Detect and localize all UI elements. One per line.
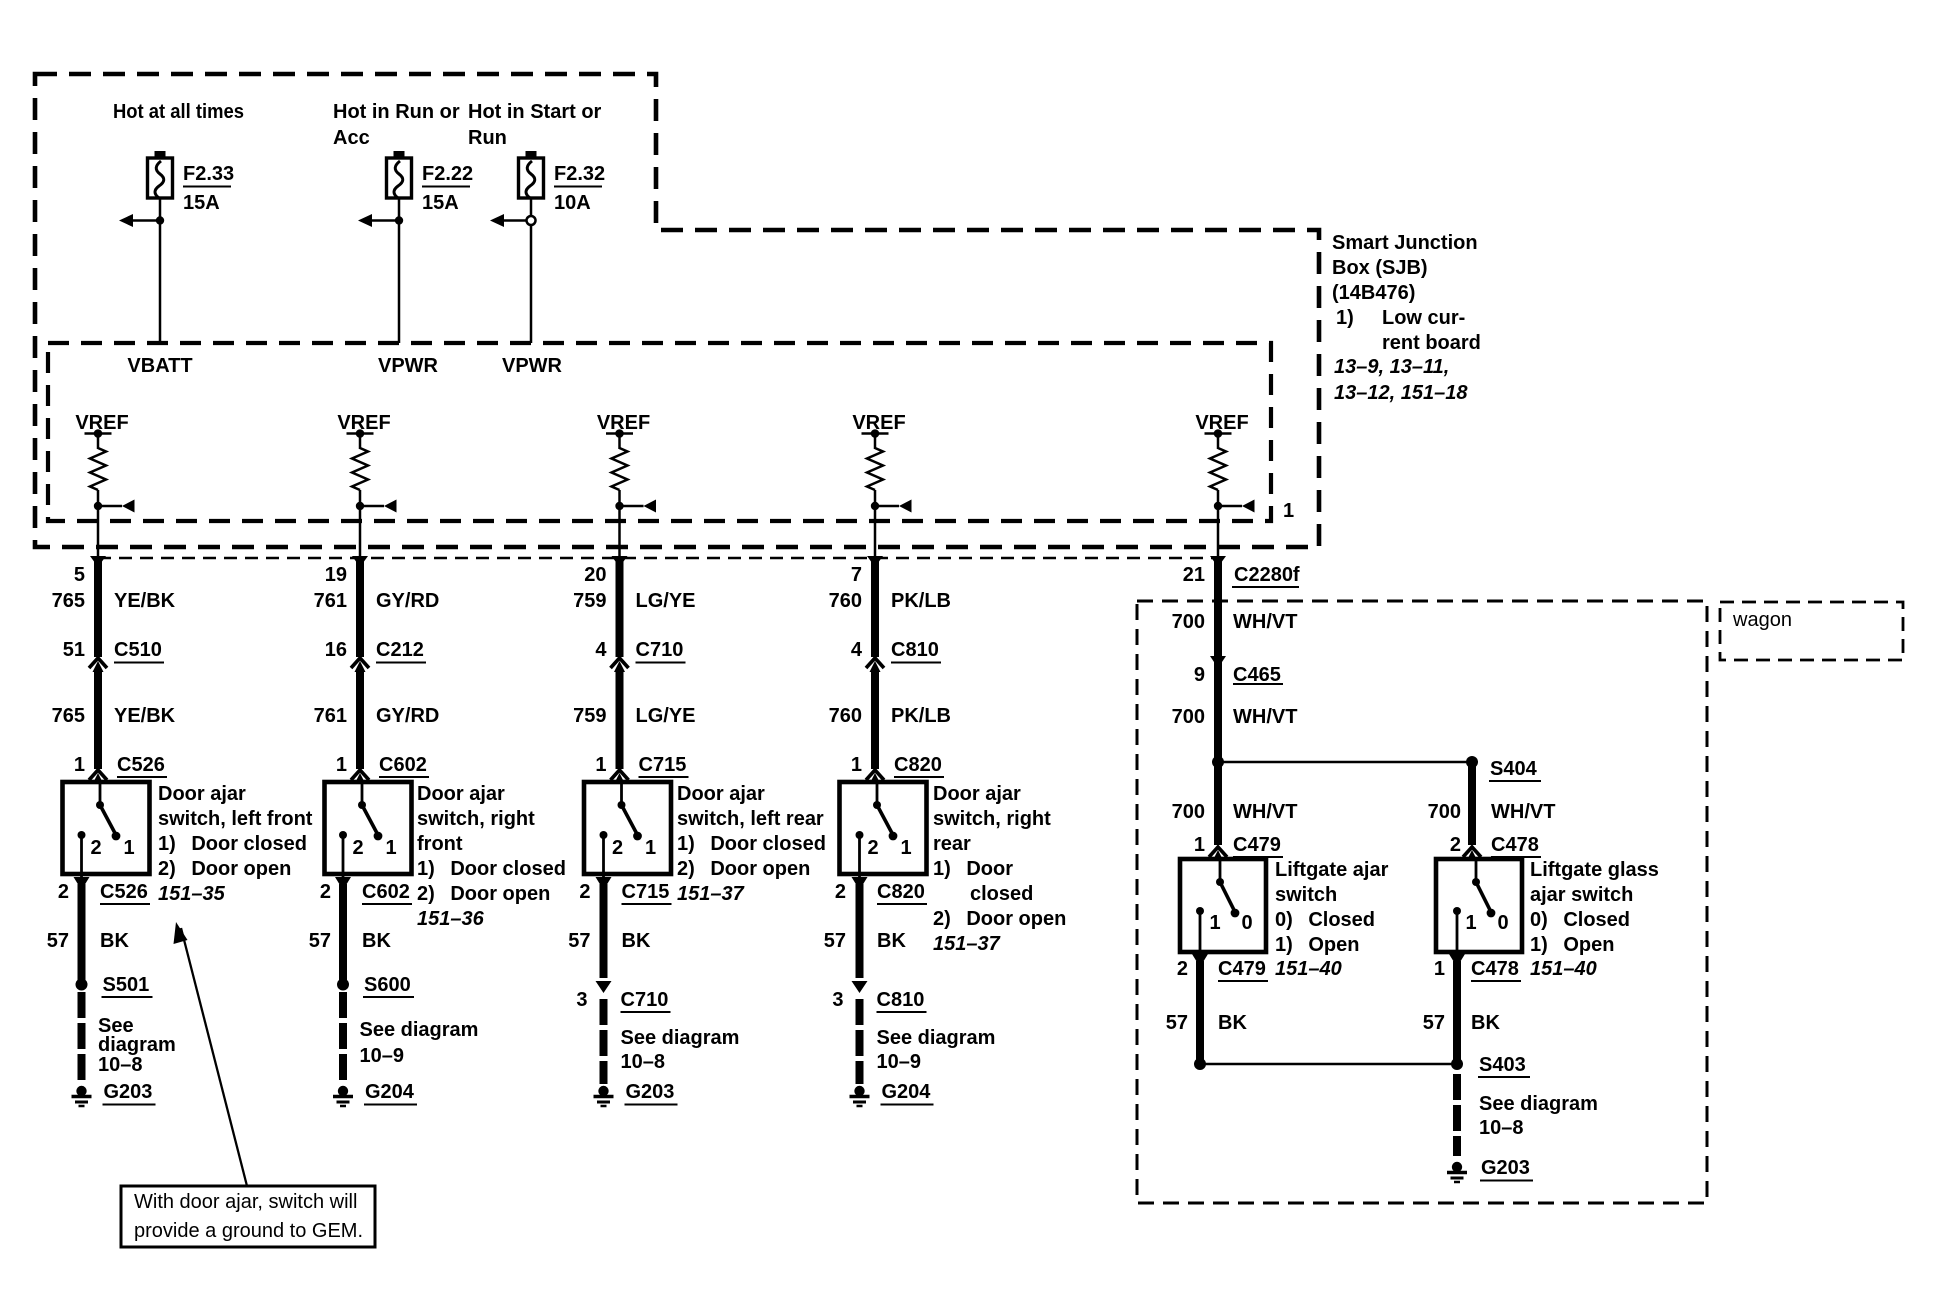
connector arrowhead on wire 1 <box>90 556 106 567</box>
svg-text:4: 4 <box>595 639 607 661</box>
door ajar switch left front internals <box>78 782 135 877</box>
svg-text:3: 3 <box>832 989 843 1011</box>
svg-text:759: 759 <box>573 705 606 727</box>
wire 760 PK/LB (lower segment, col 4) <box>871 671 879 769</box>
feed arrow at F2.22 <box>358 214 399 227</box>
svg-text:51: 51 <box>63 639 85 661</box>
connector label C810 (pin 3) <box>877 989 927 1012</box>
value label F2.33/15A <box>183 163 234 214</box>
svg-text:C820: C820 <box>894 754 942 776</box>
svg-text:7: 7 <box>851 564 862 586</box>
svg-text:13–12, 151–18: 13–12, 151–18 <box>1334 382 1468 404</box>
svg-text:BK: BK <box>100 930 129 952</box>
connector label C465 <box>1233 664 1283 686</box>
svg-text:VREF: VREF <box>852 412 905 434</box>
wire: VREF 1 to resistor <box>97 434 100 450</box>
connector arrowhead on wire 2 <box>352 556 368 567</box>
resistor (VREF pull-up 3) <box>612 448 628 490</box>
svg-text:front: front <box>417 833 463 855</box>
wire 57 BK down <box>856 884 864 978</box>
svg-text:765: 765 <box>52 705 85 727</box>
svg-text:rent board: rent board <box>1382 332 1481 354</box>
svg-text:1) Door closed: 1) Door closed <box>677 833 826 855</box>
connector arrowhead C602 pin 2 <box>335 877 351 890</box>
svg-text:760: 760 <box>829 705 862 727</box>
svg-text:Liftgate ajar: Liftgate ajar <box>1275 859 1389 881</box>
connector C602 pin 1 <box>351 770 369 784</box>
svg-text:1: 1 <box>851 754 862 776</box>
wire: F2.22 output down to SJB board <box>398 198 401 343</box>
door ajar switch left rear (box) <box>584 782 671 874</box>
svg-text:Hot in Start or: Hot in Start or <box>468 101 602 123</box>
liftgate ajar switch internals <box>1196 859 1253 954</box>
svg-text:761: 761 <box>314 705 347 727</box>
svg-text:G204: G204 <box>365 1081 415 1103</box>
svg-text:1) Door closed: 1) Door closed <box>417 858 566 880</box>
connector arrowhead on wire 3 <box>612 556 628 567</box>
svg-text:S404: S404 <box>1490 758 1538 780</box>
connector arrowhead C810 pin 3 <box>852 981 868 993</box>
junction at F2.33 <box>156 216 164 224</box>
svg-text:Hot in Run or: Hot in Run or <box>333 101 460 123</box>
label: see diagram (liftgate) <box>1479 1093 1598 1139</box>
svg-text:VREF: VREF <box>1195 412 1248 434</box>
svg-text:Liftgate glass: Liftgate glass <box>1530 859 1659 881</box>
svg-text:Low cur-: Low cur- <box>1382 307 1465 329</box>
svg-text:0: 0 <box>1497 912 1508 934</box>
svg-text:G203: G203 <box>626 1081 675 1103</box>
SJB inner dashed box (low current board) <box>48 343 1271 521</box>
svg-text:switch, left rear: switch, left rear <box>677 808 824 830</box>
wire: VREF 5 to resistor <box>1217 434 1220 450</box>
svg-text:BK: BK <box>622 930 651 952</box>
svg-text:C479: C479 <box>1218 958 1266 980</box>
svg-text:F2.22: F2.22 <box>422 163 473 185</box>
value label F2.32/10A <box>554 163 605 214</box>
svg-text:S403: S403 <box>1479 1054 1526 1076</box>
svg-text:1: 1 <box>900 837 911 859</box>
svg-text:rear: rear <box>933 833 971 855</box>
label: see diagram <box>98 1015 176 1076</box>
wire 759 LG/YE (upper segment, col 3) <box>616 560 624 657</box>
svg-text:closed: closed <box>970 883 1033 905</box>
splice label S501 <box>102 974 153 997</box>
svg-text:provide a ground to GEM.: provide a ground to GEM. <box>134 1220 363 1242</box>
svg-text:(14B476): (14B476) <box>1332 282 1415 304</box>
svg-text:5: 5 <box>74 564 85 586</box>
label: door ajar switch right front <box>417 783 566 930</box>
svg-text:switch: switch <box>1275 884 1337 906</box>
wire: resistor 2 down to pin <box>359 490 362 558</box>
wire: F2.33 output down to SJB board <box>159 198 162 343</box>
liftgate glass ajar switch (box) <box>1436 859 1522 952</box>
svg-text:151–40: 151–40 <box>1530 958 1597 980</box>
connector arrowhead C820 pin 2 <box>852 877 868 890</box>
wire 57 BK (liftgate switch to S403) <box>1196 961 1204 1064</box>
svg-text:BK: BK <box>877 930 906 952</box>
svg-text:151–40: 151–40 <box>1275 958 1342 980</box>
wire 700 WH/VT (liftgate feed) <box>1214 560 1222 845</box>
svg-text:1: 1 <box>1465 912 1476 934</box>
svg-text:G203: G203 <box>104 1081 153 1103</box>
svg-text:0: 0 <box>1241 912 1252 934</box>
connector C715 pin 1 <box>611 770 629 784</box>
svg-text:57: 57 <box>1166 1012 1188 1034</box>
svg-text:1): 1) <box>1336 307 1354 329</box>
junction + board arrow (column 4) <box>871 500 912 513</box>
svg-text:C465: C465 <box>1233 664 1281 686</box>
svg-text:2) Door open: 2) Door open <box>677 858 810 880</box>
connector label C479 <box>1233 834 1283 857</box>
ground G203 <box>72 1086 92 1106</box>
connector label C602 (pin 2) <box>362 881 412 904</box>
wire (continuation, dashed) <box>339 992 347 1082</box>
svg-text:1: 1 <box>1434 958 1445 980</box>
svg-text:10–8: 10–8 <box>98 1054 143 1076</box>
svg-text:1) Door: 1) Door <box>933 858 1013 880</box>
svg-text:21: 21 <box>1183 564 1205 586</box>
svg-text:700: 700 <box>1172 611 1205 633</box>
svg-text:57: 57 <box>824 930 846 952</box>
wire: resistor 1 down to pin <box>97 490 100 558</box>
node VREF (column 1) <box>75 412 128 438</box>
ground label G204 <box>881 1081 934 1105</box>
svg-text:F2.33: F2.33 <box>183 163 234 185</box>
fuse F2.22 15A <box>387 151 412 198</box>
resistor (VREF pull-up 5) <box>1210 448 1226 490</box>
svg-text:759: 759 <box>573 590 606 612</box>
svg-text:10A: 10A <box>554 192 591 214</box>
svg-text:PK/LB: PK/LB <box>891 590 951 612</box>
connector label C820 (pin 2) <box>877 881 927 904</box>
svg-text:1: 1 <box>1209 912 1220 934</box>
splice label S600 <box>363 974 414 997</box>
wire 57 BK (glass switch to S403) <box>1453 961 1461 1064</box>
connector arrowhead C715 pin 2 <box>596 877 612 890</box>
svg-text:1: 1 <box>336 754 347 776</box>
splice S404 (right node) <box>1466 756 1478 768</box>
svg-text:GY/RD: GY/RD <box>376 590 439 612</box>
liftgate glass ajar switch internals <box>1453 859 1509 954</box>
splice label S403 <box>1478 1054 1530 1077</box>
door ajar switch right rear (box) <box>840 782 927 874</box>
svg-text:PK/LB: PK/LB <box>891 705 951 727</box>
feed arrow at F2.33 <box>119 214 160 227</box>
svg-text:See diagram: See diagram <box>621 1027 740 1049</box>
svg-text:WH/VT: WH/VT <box>1491 801 1555 823</box>
svg-text:1) Open: 1) Open <box>1275 934 1359 956</box>
svg-text:2: 2 <box>579 881 590 903</box>
svg-text:LG/YE: LG/YE <box>636 705 696 727</box>
svg-text:16: 16 <box>325 639 347 661</box>
splice S403 junction (left) <box>1194 1058 1206 1070</box>
wire (continuation, dashed) <box>78 992 86 1082</box>
note box: ground to GEM <box>121 1186 375 1247</box>
ground G204 <box>333 1086 353 1106</box>
svg-text:C479: C479 <box>1233 834 1281 856</box>
svg-text:760: 760 <box>829 590 862 612</box>
in-line connector C212 <box>351 658 369 672</box>
svg-text:Door ajar: Door ajar <box>158 783 246 805</box>
svg-text:switch, right: switch, right <box>417 808 535 830</box>
connector label C810 <box>891 639 941 663</box>
svg-text:C710: C710 <box>636 639 684 661</box>
svg-text:See diagram: See diagram <box>360 1019 479 1041</box>
svg-text:13–9, 13–11,: 13–9, 13–11, <box>1334 356 1449 378</box>
connector label C710 <box>636 639 686 663</box>
svg-text:C715: C715 <box>622 881 670 903</box>
liftgate ajar switch (box) <box>1180 859 1266 952</box>
svg-text:VPWR: VPWR <box>378 355 439 377</box>
junction at F2.22 <box>395 216 403 224</box>
connector label C526 (pin 1) <box>117 754 167 777</box>
connector arrowhead on wire 5 <box>1210 556 1226 567</box>
wire: resistor 5 down to pin <box>1217 490 1220 558</box>
svg-text:VBATT: VBATT <box>127 355 192 377</box>
ground label G204 <box>364 1081 417 1105</box>
svg-text:15A: 15A <box>422 192 459 214</box>
svg-text:G203: G203 <box>1481 1157 1530 1179</box>
svg-text:2: 2 <box>1450 834 1461 856</box>
svg-text:C820: C820 <box>877 881 925 903</box>
svg-text:C510: C510 <box>114 639 162 661</box>
connector arrowhead on wire 4 <box>867 556 883 567</box>
wire 759 LG/YE (lower segment, col 3) <box>616 671 624 769</box>
svg-text:switch, left front: switch, left front <box>158 808 313 830</box>
svg-text:1: 1 <box>74 754 85 776</box>
wire (continuation, dashed) <box>856 999 864 1084</box>
svg-text:10–8: 10–8 <box>621 1051 666 1073</box>
svg-text:Hot at all times: Hot at all times <box>113 101 244 123</box>
svg-text:Door ajar: Door ajar <box>417 783 505 805</box>
svg-text:wagon: wagon <box>1732 609 1792 631</box>
ground label G203 (liftgate) <box>1480 1157 1533 1181</box>
svg-text:F2.32: F2.32 <box>554 163 605 185</box>
svg-text:BK: BK <box>362 930 391 952</box>
junction + board arrow (column 3) <box>615 500 656 513</box>
door ajar switch right front (box) <box>325 782 412 874</box>
svg-text:Door ajar: Door ajar <box>933 783 1021 805</box>
svg-text:1) Door closed: 1) Door closed <box>158 833 307 855</box>
wire 57 BK to splice S501 <box>78 884 86 980</box>
svg-text:C710: C710 <box>621 989 669 1011</box>
junction + board arrow (column 2) <box>356 500 397 513</box>
svg-text:1: 1 <box>595 754 606 776</box>
junction + board arrow (column 5) <box>1214 500 1255 513</box>
svg-text:1: 1 <box>123 837 134 859</box>
connector label C710 (pin 3) <box>621 989 671 1012</box>
svg-text:C602: C602 <box>379 754 427 776</box>
note arrow <box>174 922 248 1186</box>
svg-text:With door ajar, switch will: With door ajar, switch will <box>134 1191 357 1213</box>
label: see diagram <box>360 1019 479 1067</box>
svg-text:See diagram: See diagram <box>877 1027 996 1049</box>
svg-text:10–9: 10–9 <box>877 1051 922 1073</box>
connector label C478 (pin 1) <box>1471 958 1521 981</box>
svg-text:20: 20 <box>584 564 606 586</box>
wire to ground (dashed) <box>1453 1074 1461 1156</box>
wire 765 YE/BK (lower segment, col 1) <box>94 671 102 769</box>
svg-text:10–8: 10–8 <box>1479 1117 1524 1139</box>
svg-text:10–9: 10–9 <box>360 1045 405 1067</box>
svg-text:700: 700 <box>1428 801 1461 823</box>
svg-text:151–35: 151–35 <box>158 883 226 905</box>
svg-text:2: 2 <box>352 837 363 859</box>
connector C479 pin 1 <box>1209 847 1227 861</box>
svg-text:2: 2 <box>320 881 331 903</box>
connector label C820 (pin 1) <box>894 754 944 777</box>
svg-text:57: 57 <box>1423 1012 1445 1034</box>
svg-text:57: 57 <box>568 930 590 952</box>
feed arrow at F2.32 <box>490 214 527 227</box>
svg-text:2: 2 <box>867 837 878 859</box>
in-line connector C710 <box>611 658 629 672</box>
node VREF (column 5) <box>1195 412 1248 438</box>
label: door ajar switch left rear <box>677 783 826 905</box>
svg-text:9: 9 <box>1194 664 1205 686</box>
value label F2.22/15A <box>422 163 473 214</box>
in-line connector C810 <box>866 658 884 672</box>
label: liftgate ajar switch <box>1275 859 1389 980</box>
wire (continuation, dashed) <box>600 999 608 1084</box>
ground label G203 <box>625 1081 678 1105</box>
svg-text:19: 19 <box>325 564 347 586</box>
connector C820 pin 1 <box>866 770 884 784</box>
splice S403 <box>1451 1058 1463 1070</box>
svg-text:Box (SJB): Box (SJB) <box>1332 257 1428 279</box>
wire: VREF 3 to resistor <box>618 434 621 450</box>
junction (open) at F2.32 <box>527 216 536 225</box>
svg-text:VREF: VREF <box>75 412 128 434</box>
fuse F2.32 10A <box>519 151 544 198</box>
label: liftgate glass ajar switch <box>1530 859 1659 980</box>
svg-text:2: 2 <box>1177 958 1188 980</box>
label: door ajar switch right rear <box>933 783 1066 955</box>
svg-text:G204: G204 <box>882 1081 932 1103</box>
svg-text:C602: C602 <box>362 881 410 903</box>
svg-text:1: 1 <box>1194 834 1205 856</box>
wire 700 WH/VT (glass switch branch) <box>1468 762 1476 845</box>
wire: F2.32 output down to SJB board <box>530 198 533 343</box>
svg-text:BK: BK <box>1471 1012 1500 1034</box>
svg-text:C810: C810 <box>891 639 939 661</box>
connector label C715 (pin 1) <box>639 754 689 777</box>
svg-text:LG/YE: LG/YE <box>636 590 696 612</box>
label: door ajar switch left front <box>158 783 313 905</box>
svg-text:S600: S600 <box>364 974 411 996</box>
svg-text:2) Door open: 2) Door open <box>158 858 291 880</box>
connector label C510 <box>114 639 164 663</box>
svg-text:0) Closed: 0) Closed <box>1275 909 1375 931</box>
svg-text:GY/RD: GY/RD <box>376 705 439 727</box>
svg-text:2) Door open: 2) Door open <box>933 908 1066 930</box>
resistor (VREF pull-up 1) <box>90 448 106 490</box>
connector label C212 <box>376 639 426 663</box>
splice S600 <box>337 979 349 991</box>
svg-text:VREF: VREF <box>597 412 650 434</box>
svg-text:1: 1 <box>385 837 396 859</box>
label: Smart Junction Box (SJB) <box>1332 232 1481 404</box>
wire: VREF 4 to resistor <box>874 434 877 450</box>
svg-text:15A: 15A <box>183 192 220 214</box>
svg-text:YE/BK: YE/BK <box>114 705 176 727</box>
wagon label box <box>1720 602 1903 660</box>
svg-text:700: 700 <box>1172 801 1205 823</box>
wire: branch to liftgate glass switch <box>1218 761 1472 764</box>
svg-text:3: 3 <box>576 989 587 1011</box>
svg-text:BK: BK <box>1218 1012 1247 1034</box>
svg-text:WH/VT: WH/VT <box>1233 801 1297 823</box>
svg-text:VPWR: VPWR <box>502 355 563 377</box>
wire 57 BK down <box>600 884 608 978</box>
connector arrowhead C478 pin 1 <box>1449 954 1465 967</box>
svg-text:Run: Run <box>468 127 507 149</box>
svg-text:YE/BK: YE/BK <box>114 590 176 612</box>
svg-text:151–37: 151–37 <box>677 883 745 905</box>
splice label S404 <box>1489 758 1541 781</box>
ground label G203 <box>103 1081 156 1105</box>
svg-text:WH/VT: WH/VT <box>1233 706 1297 728</box>
svg-text:WH/VT: WH/VT <box>1233 611 1297 633</box>
SJB outer dashed box <box>35 74 1319 547</box>
svg-text:ajar switch: ajar switch <box>1530 884 1633 906</box>
node VREF (column 4) <box>852 412 905 438</box>
junction + board arrow (column 1) <box>94 500 135 513</box>
svg-text:765: 765 <box>52 590 85 612</box>
ground G204 <box>850 1086 870 1106</box>
svg-text:2) Door open: 2) Door open <box>417 883 550 905</box>
svg-text:C526: C526 <box>100 881 148 903</box>
connector label C602 (pin 1) <box>379 754 429 777</box>
svg-text:2: 2 <box>58 881 69 903</box>
connector arrowhead C710 pin 3 <box>596 981 612 993</box>
svg-text:See diagram: See diagram <box>1479 1093 1598 1115</box>
splice S404 junction <box>1212 756 1224 768</box>
label: see diagram <box>877 1027 996 1073</box>
svg-text:C478: C478 <box>1471 958 1519 980</box>
svg-text:57: 57 <box>309 930 331 952</box>
svg-text:700: 700 <box>1172 706 1205 728</box>
connector C2280f dashed line <box>98 557 1218 560</box>
svg-text:0) Closed: 0) Closed <box>1530 909 1630 931</box>
fuse F2.33 15A <box>148 151 173 198</box>
resistor (VREF pull-up 4) <box>867 448 883 490</box>
svg-text:C810: C810 <box>877 989 925 1011</box>
svg-text:diagram: diagram <box>98 1034 176 1056</box>
svg-text:C478: C478 <box>1491 834 1539 856</box>
svg-text:761: 761 <box>314 590 347 612</box>
connector label C526 (pin 2) <box>100 881 150 904</box>
door ajar switch right rear internals <box>856 782 912 877</box>
svg-text:Acc: Acc <box>333 127 370 149</box>
connector C526 pin 1 <box>89 770 107 784</box>
connector arrowhead C526 pin 2 <box>74 877 90 890</box>
resistor (VREF pull-up 2) <box>352 448 368 490</box>
wire: VREF 2 to resistor <box>359 434 362 450</box>
connector C478 pin 2 <box>1463 847 1481 861</box>
svg-text:4: 4 <box>851 639 863 661</box>
wire 761 GY/RD (lower segment, col 2) <box>356 671 364 769</box>
wire: resistor 4 down to pin <box>874 490 877 558</box>
door ajar switch right front internals <box>339 782 397 877</box>
svg-text:1) Open: 1) Open <box>1530 934 1614 956</box>
node VREF (column 3) <box>597 412 650 438</box>
connector C2280f label <box>1232 564 1300 587</box>
wire: S403 tie line <box>1200 1063 1457 1066</box>
connector arrowhead C465 pin 9 <box>1210 656 1226 668</box>
svg-text:1: 1 <box>1283 500 1294 522</box>
svg-text:switch, right: switch, right <box>933 808 1051 830</box>
